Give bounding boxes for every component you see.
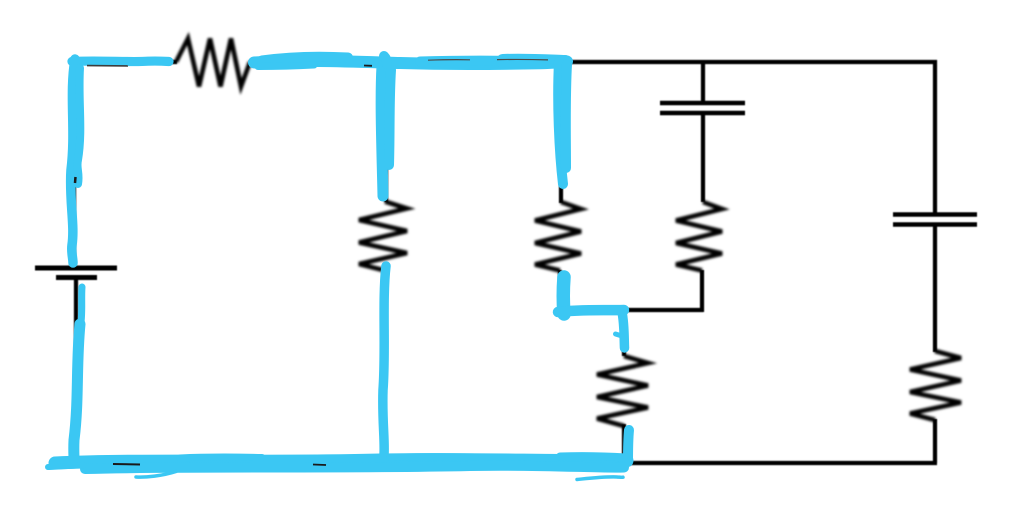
highlight bottom second xyxy=(85,466,624,469)
resistor R2 xyxy=(359,202,407,271)
wire branch2 upper xyxy=(384,60,388,202)
highlight bottom dash xyxy=(577,477,623,480)
highlight top wire right part xyxy=(254,61,567,64)
highlight branch2 upper stroke A xyxy=(381,66,383,196)
highlight step drop xyxy=(622,312,625,348)
wire branch3 drop xyxy=(558,270,562,310)
highlight bottom right extra xyxy=(560,456,626,457)
wire branch5 lower xyxy=(622,424,626,463)
wire branch3 upper xyxy=(559,60,563,203)
wire branch4 drop xyxy=(700,270,704,312)
highlight top wire mid fill xyxy=(420,56,520,67)
highlight step horizontal xyxy=(558,310,624,312)
wire peek through left vertical gap xyxy=(74,177,77,183)
wire top-right segment xyxy=(249,60,937,64)
highlight below R5 xyxy=(628,430,629,462)
resistor R4 xyxy=(676,202,722,271)
wire peek above top band 2 xyxy=(497,58,548,60)
capacitor C2 top plate xyxy=(893,212,977,217)
wire peek below top band xyxy=(364,65,372,67)
wire branch4 mid xyxy=(701,115,705,202)
wire peek through bottom band 2 xyxy=(313,464,326,467)
capacitor C1 bottom plate xyxy=(660,111,745,116)
wire peek above top band xyxy=(428,59,470,62)
highlight branch2 upper stroke B xyxy=(389,70,391,165)
battery V1 short plate xyxy=(56,275,97,280)
highlight top wire lower lump xyxy=(258,65,314,67)
highlight step drop nub xyxy=(616,334,623,336)
wire peek through bottom band 1 xyxy=(113,463,140,466)
resistor R5 xyxy=(597,356,648,426)
wire branch5 upper xyxy=(622,310,626,356)
highlight left below battery upper xyxy=(80,287,82,330)
highlight left below battery lower xyxy=(74,324,80,459)
wire right upper xyxy=(933,60,937,213)
wire peek below top band left xyxy=(87,65,128,67)
wire left lower xyxy=(74,277,78,465)
highlight branch2 top bump xyxy=(384,56,387,64)
capacitor C1 top plate xyxy=(660,101,745,106)
highlight bottom edge bump 1 xyxy=(180,457,262,458)
highlight left vertical stroke B xyxy=(77,68,80,184)
wire branch4 cap lead xyxy=(701,60,705,101)
wire top-left segment xyxy=(72,60,177,64)
highlight left vertical stroke A xyxy=(71,59,75,263)
wire right mid xyxy=(933,226,937,352)
battery V1 long plate xyxy=(35,266,117,271)
resistor R6 xyxy=(910,351,961,420)
capacitor C2 bottom plate xyxy=(893,222,977,227)
wire bottom xyxy=(74,461,937,465)
highlight bottom wisp xyxy=(136,472,176,478)
highlight branch2 lower xyxy=(383,266,386,455)
wire node mid horizontal xyxy=(560,308,703,312)
highlight top wire left part xyxy=(72,56,169,66)
highlight branch3 upper stroke B xyxy=(566,64,567,168)
wire left upper xyxy=(72,60,76,266)
highlight branch3 upper stroke A xyxy=(558,62,563,184)
resistor R1 xyxy=(176,39,250,87)
highlight branch3 step vertical xyxy=(557,277,571,314)
wire branch2 lower xyxy=(382,269,386,463)
highlight bottom edge bump 2 xyxy=(390,457,475,458)
highlight bottom main xyxy=(55,460,627,463)
highlight bottom left taper xyxy=(48,465,84,467)
resistor R3 xyxy=(535,202,581,271)
wire right lower xyxy=(933,419,937,463)
highlight top wire right bump xyxy=(262,57,348,61)
highlight top wire right blob xyxy=(503,61,565,62)
